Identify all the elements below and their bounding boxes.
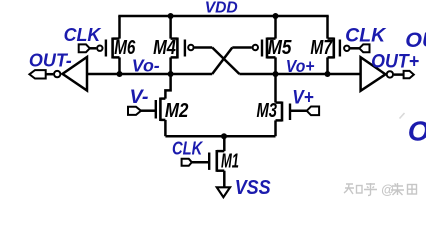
wire cross diagonal M5-gate to Vo-	[212, 48, 232, 75]
port OUT-	[29, 70, 45, 78]
svg-text:OUT-: OUT-	[29, 49, 72, 70]
svg-text:OUT+: OUT+	[371, 52, 419, 73]
svg-text:Vo+: Vo+	[286, 56, 315, 76]
wire U1 bubble to OUT- port	[46, 73, 54, 76]
wire M6 drain to Vo-	[118, 57, 121, 74]
svg-text:M2: M2	[165, 99, 189, 122]
wire M5 gate to cross	[232, 46, 252, 49]
node tail junction M1 drain	[221, 133, 227, 139]
svg-text:OUT: OUT	[408, 115, 426, 146]
wire M5 source to VDD	[274, 16, 277, 39]
svg-text:Vo-: Vo-	[132, 56, 160, 76]
wire V- port to M2 gate	[141, 109, 156, 112]
svg-text:V+: V+	[292, 88, 314, 109]
node Vo+ junction M7 drain	[325, 71, 331, 77]
wire VDD rail	[118, 15, 328, 18]
wire M5 drain to Vo+	[274, 57, 277, 74]
svg-text:V-: V-	[130, 87, 149, 108]
wire M3 drain to Vo+	[274, 74, 277, 103]
wire CLK port to M6 bubble	[90, 47, 97, 50]
wire M6 source to VDD	[118, 16, 121, 39]
svg-text:M3: M3	[257, 99, 278, 122]
svg-text:VDD: VDD	[205, 0, 238, 17]
wire cross diagonal M4-gate to Vo+	[212, 48, 239, 75]
port OUT+	[404, 71, 414, 78]
output bubble U1	[54, 71, 60, 77]
node Vo- junction M4/M2 drains	[168, 71, 174, 77]
svg-text:CLK: CLK	[172, 138, 204, 158]
transistor M4	[171, 38, 185, 59]
svg-text:VSS: VSS	[235, 177, 271, 199]
wire Vo+ rail	[239, 73, 360, 76]
transistor M3	[276, 102, 291, 122]
wire M4 drain to Vo-	[169, 57, 172, 74]
faint mark right edge	[400, 113, 405, 119]
wire M3 source to tail	[274, 120, 277, 136]
gate bubble M5	[253, 45, 258, 50]
node Vo+ junction M5/M3 drains	[273, 71, 279, 77]
wire Vo- rail	[87, 73, 212, 76]
wire M4 gate to cross	[194, 46, 212, 49]
transistor M5	[262, 38, 276, 59]
wire M2 drain jog to Vo-	[165, 74, 170, 99]
transistor M2	[156, 98, 166, 122]
inverter U1 OUT-	[63, 57, 88, 91]
transistor M1	[209, 150, 224, 172]
wire M7 drain to Vo+	[326, 57, 329, 74]
svg-text:CLK: CLK	[64, 24, 102, 45]
wire M1 drain to tail	[223, 136, 226, 151]
wire common-source tail rail	[165, 135, 275, 138]
svg-text:M1: M1	[221, 150, 239, 173]
transistor M7	[328, 38, 340, 59]
port V-	[128, 107, 141, 115]
gate bubble M7	[344, 46, 349, 51]
wire U2 bubble to OUT+ port	[394, 73, 404, 76]
port CLK left	[79, 44, 90, 52]
watermark zhihu	[344, 184, 362, 194]
node VDD junction M4 source	[168, 13, 174, 19]
transistor M6	[106, 38, 120, 59]
wire M4 source to VDD	[169, 16, 172, 39]
svg-text:OUT: OUT	[405, 28, 426, 52]
ground VSS symbol	[217, 187, 230, 197]
inverter U2 OUT+	[361, 57, 386, 91]
wire M1 source to VSS	[223, 171, 226, 188]
wire CLK port to M1 gate	[192, 161, 209, 164]
port V+	[307, 106, 319, 115]
node Vo- junction M6 drain	[117, 71, 123, 77]
node VDD junction M5 source	[273, 13, 279, 19]
port CLK right	[359, 44, 369, 52]
port CLK tail	[182, 159, 192, 166]
wire M2 source to tail	[164, 120, 167, 136]
wire M7 bubble to CLK port	[350, 47, 359, 50]
gate bubble M4	[188, 45, 193, 50]
gate bubble M6	[97, 46, 102, 51]
svg-text:CLK: CLK	[345, 26, 387, 47]
output bubble U2	[387, 71, 393, 77]
wire M7 source to VDD	[326, 16, 329, 39]
wire M3 gate to V+ port	[290, 109, 307, 112]
